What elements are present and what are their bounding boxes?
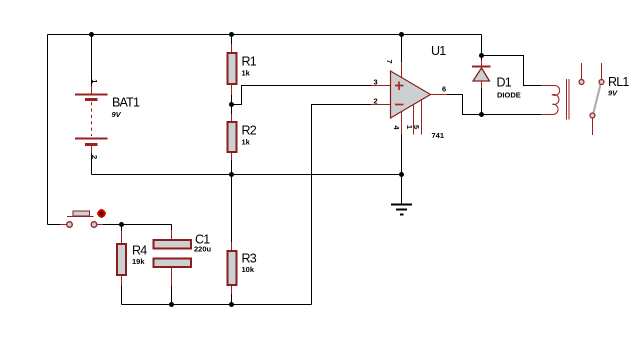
svg-text:RL1: RL1 [608,75,629,89]
svg-text:4: 4 [392,125,401,130]
svg-text:1k: 1k [242,69,251,78]
svg-text:R1: R1 [242,55,257,69]
svg-text:741: 741 [432,131,445,140]
svg-text:10k: 10k [242,265,255,274]
svg-text:R2: R2 [242,124,257,138]
svg-text:2: 2 [374,97,378,106]
svg-text:19k: 19k [132,257,145,266]
svg-text:7: 7 [385,59,394,63]
svg-text:9V: 9V [608,89,618,98]
svg-text:2: 2 [90,155,99,159]
svg-text:D1: D1 [497,76,512,90]
svg-text:5: 5 [412,125,421,129]
svg-text:U1: U1 [431,44,446,58]
svg-text:1k: 1k [242,138,251,147]
svg-text:3: 3 [374,78,378,87]
svg-text:R4: R4 [132,244,147,258]
svg-text:220u: 220u [194,245,212,254]
svg-text:1: 1 [90,79,99,83]
svg-text:DIODE: DIODE [497,91,521,100]
svg-text:9V: 9V [112,110,122,119]
svg-text:6: 6 [442,85,446,94]
svg-text:BAT1: BAT1 [112,96,140,110]
svg-text:R3: R3 [242,252,257,266]
